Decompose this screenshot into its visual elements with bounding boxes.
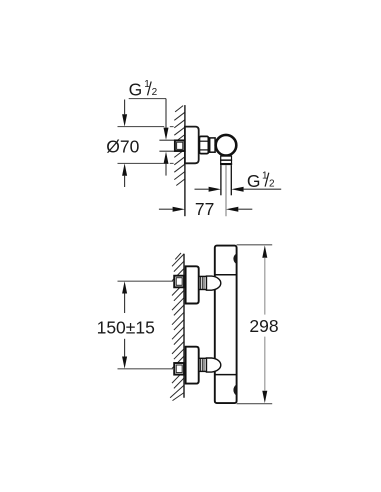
leader line under G1/2 label xyxy=(129,98,166,100)
77 dimension right arrow xyxy=(226,207,252,212)
wall hatching (bottom view) xyxy=(170,253,184,401)
escutcheon flange (top view, Ø70) xyxy=(185,127,199,164)
lower supply line / extension xyxy=(118,368,175,370)
svg-text:150±15: 150±15 xyxy=(97,318,155,338)
lower wall stub xyxy=(174,363,184,375)
svg-text:G: G xyxy=(129,80,143,100)
298 dimension upper arrow xyxy=(262,245,267,314)
svg-text:2: 2 xyxy=(269,178,275,189)
150±15 dimension upper arrow xyxy=(122,281,127,313)
Ø70 extension line top xyxy=(118,126,165,128)
upper connection cone xyxy=(206,276,220,290)
77 dimension left arrow xyxy=(159,207,185,212)
G1/2 right dimension arrows (outlet pipe) xyxy=(195,187,221,192)
connector collar between nut and valve body xyxy=(208,137,210,153)
lower threaded nipple xyxy=(199,358,207,371)
wall line (bottom view) xyxy=(183,254,185,398)
valve body end cap circle (top view) xyxy=(216,135,237,156)
298 bottom extension line xyxy=(237,403,273,405)
pipe centre line xyxy=(225,165,227,216)
outlet collar below circle xyxy=(221,156,232,164)
lower escutcheon (side) xyxy=(186,347,199,384)
upper wall stub xyxy=(174,276,184,288)
upper escutcheon (side) xyxy=(186,266,199,303)
G1/2 leader drop arrow (to stub top) xyxy=(164,99,169,140)
pipe stub in wall (top view) xyxy=(175,140,185,151)
supply pipe lines in wall xyxy=(159,139,175,141)
shower outlet pipe xyxy=(220,165,222,195)
wall line (top view) xyxy=(184,105,186,216)
union nut (top view) xyxy=(199,136,208,153)
Ø70 upper arrow xyxy=(122,100,127,127)
body cap divider (top) xyxy=(215,274,237,276)
svg-text:Ø70: Ø70 xyxy=(106,136,139,156)
upper threaded nipple xyxy=(199,276,207,289)
label G 1/2 (right) xyxy=(247,170,275,191)
lower connection cone xyxy=(206,358,220,372)
Ø70 lower arrow xyxy=(122,163,127,187)
body cap divider (bottom) xyxy=(215,374,237,376)
knob detail (top) xyxy=(233,254,236,264)
svg-text:77: 77 xyxy=(195,199,214,219)
Ø70 extension line bottom xyxy=(118,162,165,164)
298 top extension line xyxy=(237,244,273,246)
knob detail (bottom) xyxy=(233,385,236,396)
svg-text:298: 298 xyxy=(249,316,278,336)
label G 1/2 (top left) xyxy=(129,79,158,100)
G1/2 lower arrow (to stub bottom) xyxy=(164,152,169,176)
150±15 dimension lower arrow xyxy=(122,339,127,369)
upper supply line / extension xyxy=(118,280,175,282)
svg-text:G: G xyxy=(247,171,261,191)
svg-text:2: 2 xyxy=(152,87,158,98)
298 dimension lower arrow xyxy=(262,337,267,404)
thermostat body bar xyxy=(215,246,237,404)
wall hatching (top view) xyxy=(174,106,185,186)
